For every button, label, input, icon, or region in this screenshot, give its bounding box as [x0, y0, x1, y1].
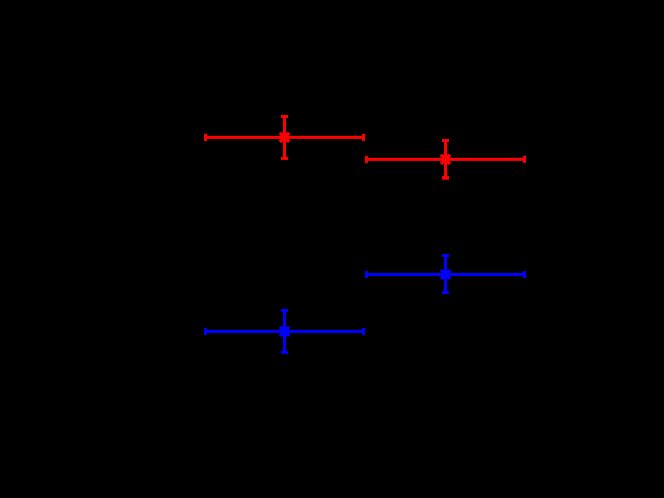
- red data point R2 (xy error bars + asterisk marker): [366, 141, 524, 178]
- wire: B1 left cap: [365, 271, 368, 278]
- wire: R1 left cap: [204, 134, 207, 141]
- wire: R2 bottom cap: [442, 176, 449, 180]
- wire: B1 vertical error bar: [444, 255, 447, 292]
- wire: B2 left cap: [204, 328, 207, 335]
- wire: B2 horizontal error bar: [206, 330, 364, 333]
- wire: B2 top cap: [281, 309, 288, 312]
- marker: B1 asterisk: [441, 270, 450, 279]
- marker: R2 asterisk: [441, 155, 450, 164]
- marker: B2 asterisk: [280, 327, 289, 336]
- wire: R2 top cap: [442, 139, 449, 142]
- wire: R1 bottom cap: [281, 157, 288, 160]
- wire: B2 right cap: [362, 328, 365, 335]
- wire: R2 horizontal error bar: [366, 158, 524, 161]
- wire: B1 right cap: [523, 271, 526, 278]
- wire: R1 right cap: [362, 134, 365, 141]
- wire: R1 vertical error bar: [283, 117, 286, 159]
- wire: R1 top cap: [281, 115, 288, 118]
- wire: B1 bottom cap: [442, 291, 449, 294]
- wire: B2 vertical error bar: [283, 310, 286, 352]
- marker: R1 asterisk: [280, 133, 289, 142]
- wire: R2 right cap: [523, 156, 526, 163]
- wire: R1 horizontal error bar: [206, 136, 364, 139]
- wire: R2 left cap: [365, 156, 368, 163]
- blue data point B2 (xy error bars + asterisk marker): [206, 310, 364, 352]
- wire: B1 top cap: [442, 254, 449, 257]
- blue data point B1 (xy error bars + asterisk marker): [366, 255, 524, 292]
- red data point R1 (xy error bars + asterisk marker): [206, 117, 364, 159]
- wire: B2 bottom cap: [281, 351, 288, 354]
- wire: B1 horizontal error bar: [366, 273, 524, 276]
- wire: R2 vertical error bar: [444, 141, 447, 178]
